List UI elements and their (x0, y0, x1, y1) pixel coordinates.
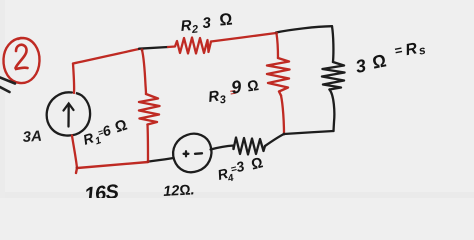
svg-text:R: R (180, 17, 192, 35)
wire (284, 131, 334, 134)
label R4 = 3Ω (215, 153, 266, 187)
wire (72, 136, 77, 169)
wire (73, 64, 74, 94)
wire (211, 33, 276, 42)
wire (330, 90, 335, 132)
resistor R5 (322, 62, 345, 90)
svg-text:16S: 16S (83, 181, 120, 198)
wire (281, 96, 284, 135)
resistor R2 (168, 38, 211, 54)
current source I1 (47, 92, 90, 135)
wire (76, 162, 148, 173)
wire (148, 158, 174, 162)
label R3 = 9Ω (206, 74, 261, 108)
resistor R1 (139, 94, 160, 125)
node junction dots (76, 32, 286, 170)
svg-text:12Ω.: 12Ω. (163, 182, 195, 198)
label R2 3Ω (180, 10, 234, 37)
svg-text:3A: 3A (22, 128, 42, 146)
wire (332, 26, 333, 62)
label 3Ω = R5 (353, 38, 429, 77)
resistor R4 (234, 138, 266, 155)
wire (277, 34, 279, 59)
annotation marks (0, 78, 15, 93)
wire (146, 125, 149, 163)
problem number badge 2 (3, 38, 39, 83)
wire (276, 26, 332, 32)
resistor R3 (267, 58, 290, 96)
wire (265, 134, 284, 146)
wire (73, 49, 139, 64)
svg-text:Ω: Ω (218, 10, 233, 30)
svg-text:2: 2 (191, 24, 199, 37)
label R1 = 6Ω (80, 117, 130, 151)
wire (211, 146, 234, 150)
wire (139, 47, 168, 49)
voltage source V1 (171, 132, 213, 174)
wire (142, 50, 146, 94)
